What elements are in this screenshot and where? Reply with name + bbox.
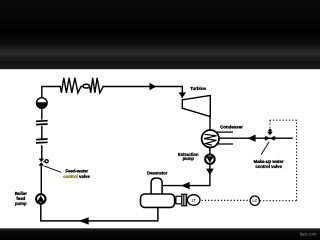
wire condenser to extraction pump — [209, 147, 211, 154]
svg-text:pump: pump — [15, 201, 27, 206]
top title band — [0, 0, 320, 69]
make-up water line — [219, 137, 293, 139]
feed-water control valve — [39, 159, 45, 166]
boiler drum — [37, 98, 48, 109]
svg-text:LC: LC — [253, 199, 258, 203]
dashed signal LC to right — [260, 200, 297, 202]
wire tick to drum — [41, 108, 43, 119]
wire turbine to condenser — [209, 117, 211, 131]
svg-text:pump: pump — [183, 156, 195, 161]
pointer to feed valve — [44, 166, 61, 172]
svg-text:control valve: control valve — [63, 174, 90, 179]
deaerator dome — [151, 178, 162, 195]
condenser cooling stub upper — [216, 131, 233, 133]
flow arrow down — [206, 169, 214, 176]
svg-text:fppt.com: fppt.com — [300, 232, 317, 237]
wire top-left corner — [42, 87, 61, 98]
wire steam line to turbine — [103, 87, 182, 98]
dashed signal top run — [270, 119, 297, 121]
level transmitter LT — [187, 195, 200, 206]
riser tick pair 1 — [36, 121, 48, 125]
dashed signal LT to LC — [202, 199, 250, 201]
svg-text:Deaerator: Deaerator — [147, 170, 168, 175]
coil separator drum (small oval) — [83, 84, 90, 88]
boiler coil zigzag 1 — [60, 78, 83, 93]
make-up water control valve — [264, 128, 275, 140]
make-up flow arrow — [248, 135, 256, 142]
extraction pump — [205, 155, 214, 164]
svg-text:control valve: control valve — [255, 164, 282, 169]
flow arrow into deaerator — [181, 182, 190, 189]
flow arrow into turbine — [179, 92, 187, 97]
condenser — [202, 130, 219, 147]
wire valve up to drum — [41, 145, 43, 159]
deaerator tank — [141, 194, 175, 207]
wire to deaerator — [162, 185, 211, 187]
svg-text:Condenser: Condenser — [220, 125, 243, 130]
wire between ticks — [41, 126, 43, 139]
LT flange — [182, 194, 187, 206]
turbine T — [182, 95, 210, 116]
dashed signal right riser — [296, 120, 298, 201]
riser tick pair 2 — [36, 139, 48, 143]
boiler coil zigzag 2 — [90, 78, 104, 93]
bottom band — [0, 228, 320, 240]
feed valve actuator — [43, 160, 48, 163]
level controller LC — [250, 196, 259, 205]
LT nozzle connector — [176, 196, 182, 204]
wire feed pump up to valve — [40, 165, 42, 194]
wire deaerator outlet down — [41, 204, 158, 221]
wire extraction pump down — [209, 164, 211, 186]
svg-text:Turbine: Turbine — [190, 86, 206, 91]
boiler feed pump — [36, 194, 45, 203]
flow arrow on steam line — [150, 83, 157, 91]
flow arrow to feed pump — [79, 217, 89, 224]
pointer to make-up valve — [261, 142, 269, 155]
dashed signal to valve actuator — [269, 120, 271, 127]
condenser cooling stub lower — [216, 143, 233, 145]
